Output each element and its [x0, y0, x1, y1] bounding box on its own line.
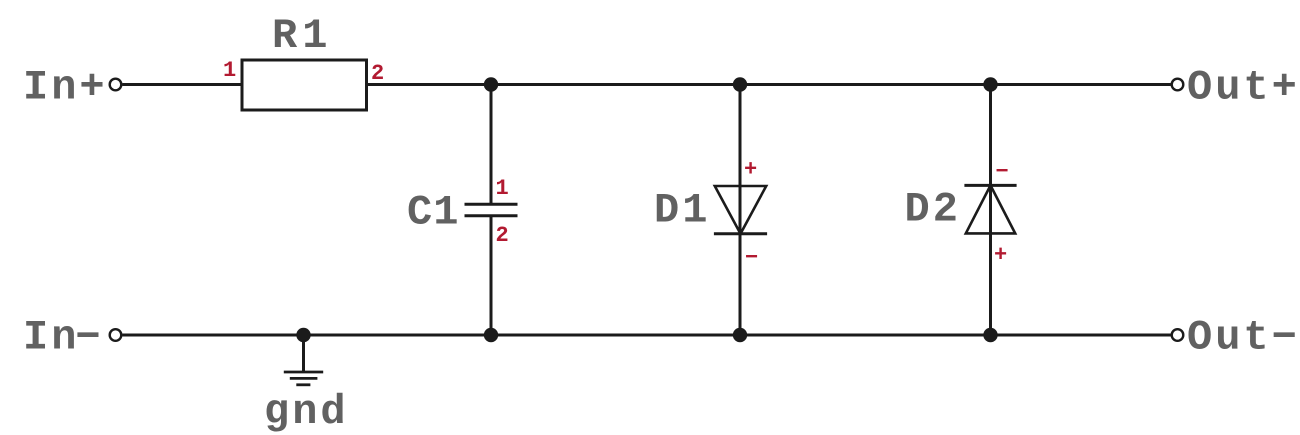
terminal Out+: [1172, 79, 1184, 91]
diode D2 cathode bar: [964, 184, 1016, 187]
svg-text:Out−: Out−: [1187, 314, 1300, 362]
junction dot top D2 node: [983, 77, 997, 91]
svg-text:In−: In−: [23, 314, 104, 362]
junction dot top D1 node: [733, 77, 747, 91]
svg-text:C1: C1: [407, 189, 459, 237]
resistor R1 body: [242, 60, 367, 110]
wire D1 top lead: [739, 85, 742, 336]
capacitor C1 bottom plate: [465, 214, 518, 217]
terminal In+: [110, 79, 122, 91]
junction dot gnd node: [296, 328, 310, 342]
svg-text:+: +: [994, 243, 1007, 268]
svg-text:2: 2: [371, 61, 384, 86]
wire In+ to R1 pin1: [122, 83, 242, 86]
junction dot bottom D2 node: [983, 328, 997, 342]
diode D2 triangle: [966, 185, 1015, 233]
ground bar 1: [284, 371, 323, 374]
wire R1 pin2 to Out+: [367, 83, 1171, 86]
wire C1 top lead: [490, 85, 493, 205]
svg-text:+: +: [744, 158, 757, 183]
svg-text:1: 1: [223, 58, 236, 83]
terminal In-: [110, 329, 122, 341]
svg-text:Out+: Out+: [1187, 64, 1300, 112]
svg-text:−: −: [745, 246, 758, 271]
ground bar 3: [296, 383, 310, 386]
terminal Out-: [1172, 329, 1184, 341]
svg-text:1: 1: [496, 176, 509, 201]
svg-text:gnd: gnd: [264, 388, 349, 435]
junction dot bottom D1 node: [733, 328, 747, 342]
wire bottom rail In- to Out-: [122, 334, 1171, 337]
svg-text:R1: R1: [272, 12, 332, 60]
diode D1 cathode bar: [714, 232, 767, 235]
junction dot top C1 node: [484, 77, 498, 91]
svg-text:D2: D2: [905, 186, 961, 234]
wire C1 bottom lead: [490, 216, 493, 335]
capacitor C1 top plate: [465, 203, 518, 206]
gnd stub wire: [302, 335, 305, 372]
svg-text:2: 2: [496, 223, 509, 248]
svg-text:−: −: [996, 160, 1009, 185]
svg-text:In+: In+: [23, 64, 108, 112]
diode D1 triangle: [715, 186, 766, 234]
ground bar 2: [290, 377, 318, 380]
svg-text:D1: D1: [654, 187, 710, 235]
junction dot bottom C1 node: [484, 328, 498, 342]
wire D2 lead: [989, 85, 992, 336]
